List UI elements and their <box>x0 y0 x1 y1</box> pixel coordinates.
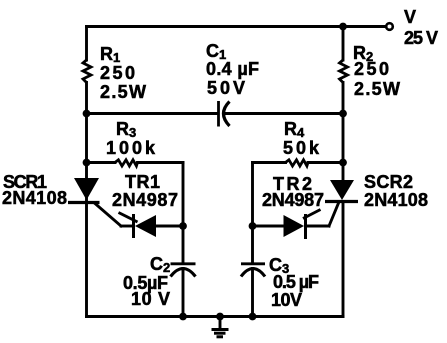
svg-text:R3: R3 <box>116 119 136 140</box>
svg-text:50V: 50V <box>207 78 245 98</box>
svg-text:250: 250 <box>100 63 135 83</box>
svg-text:2N4987: 2N4987 <box>262 190 324 210</box>
svg-text:50k: 50k <box>283 138 320 158</box>
svg-text:250: 250 <box>354 59 389 79</box>
svg-text:0.5 µF: 0.5 µF <box>273 272 319 292</box>
svg-text:TR1: TR1 <box>125 172 160 192</box>
svg-text:SCR2: SCR2 <box>364 172 413 192</box>
svg-text:R1: R1 <box>100 44 120 65</box>
svg-text:0.4 µF: 0.4 µF <box>206 59 259 79</box>
svg-text:2.5W: 2.5W <box>100 82 146 102</box>
svg-text:2.5W: 2.5W <box>354 79 400 99</box>
svg-text:2N4108: 2N4108 <box>2 188 67 208</box>
svg-text:R4: R4 <box>284 119 305 140</box>
svg-text:25 V: 25 V <box>404 28 438 48</box>
svg-text:2N4987: 2N4987 <box>112 190 178 210</box>
svg-text:10 V: 10 V <box>131 289 170 309</box>
svg-text:10V: 10V <box>271 290 302 310</box>
svg-text:2N4108: 2N4108 <box>364 190 428 210</box>
svg-text:C2: C2 <box>150 254 170 275</box>
svg-text:V: V <box>404 7 416 27</box>
svg-text:100k: 100k <box>106 138 156 158</box>
